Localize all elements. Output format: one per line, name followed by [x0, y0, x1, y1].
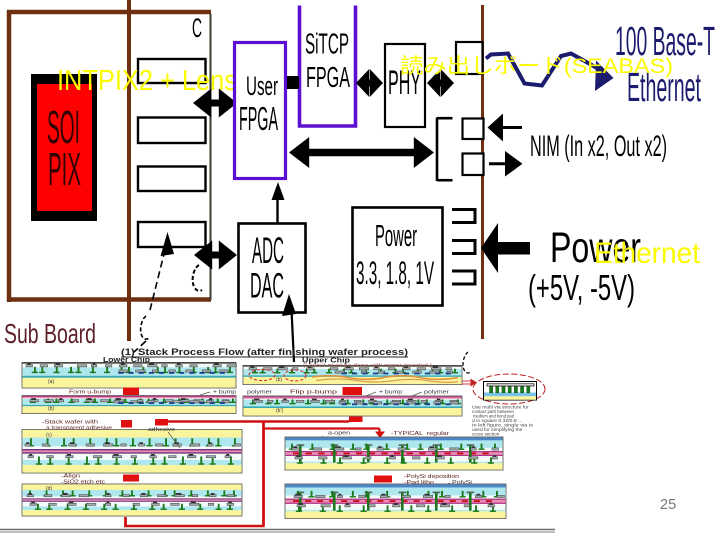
wire arrow from stack figure to DAC: [282, 294, 296, 362]
svg-text:User: User: [246, 71, 278, 101]
figure stacked bar c (left): [22, 430, 242, 474]
connector ethernet jack box: [456, 42, 483, 74]
svg-text:Sub Board: Sub Board: [4, 318, 96, 349]
wire ethernet wave arrow (navy): [486, 54, 614, 92]
block SiTCP FPGA: [300, 6, 356, 127]
wire dashed link and arrow to connector: [134, 232, 174, 352]
figure stacked bar e (right): [285, 437, 503, 470]
wire big power arrow (left): [481, 223, 530, 273]
svg-text:(c): (c): [46, 433, 52, 439]
connector power staple 1: [452, 210, 475, 223]
figure stacked bar f (right): [285, 484, 506, 519]
svg-text:PIX: PIX: [48, 143, 81, 195]
label TYPICAL cross section: [322, 431, 451, 444]
svg-text:(a): (a): [48, 379, 54, 385]
figure lower chip bar a: [22, 363, 237, 389]
wire NIM in arrow (left): [488, 114, 523, 142]
svg-text:(d): (d): [46, 486, 52, 492]
svg-text:cross section: cross section: [472, 432, 500, 437]
svg-text:FPGA: FPGA: [239, 100, 278, 137]
wire double arrow connector-ADC: [194, 241, 237, 270]
label align SiO2 etch annotation: [61, 474, 139, 486]
wire double arrow connector-UserFPGA: [193, 89, 237, 118]
wire NIM out arrow (right): [489, 151, 523, 177]
connector NIM box 2: [463, 154, 484, 176]
svg-text:NIM (In x2, Out x2): NIM (In x2, Out x2): [530, 130, 667, 163]
svg-text:25: 25: [660, 497, 676, 513]
label PolySi deposition annotation: [374, 474, 472, 487]
svg-text:3.3, 1.8, 1V: 3.3, 1.8, 1V: [356, 255, 434, 291]
wire brown divider A: [127, 0, 131, 341]
svg-text:Form u-bump: Form u-bump: [69, 390, 111, 396]
connector pin 2: [138, 118, 206, 144]
svg-text:FPGA: FPGA: [306, 62, 350, 94]
svg-text:読み出しボード(SEABAS): 読み出しボード(SEABAS): [400, 55, 673, 78]
wire double arrow SiTCP-PHY: [356, 69, 383, 97]
svg-text:(b’): (b’): [276, 408, 284, 414]
svg-text:(Layout must be done with mirr: (Layout must be done with mirror inverte…: [303, 363, 432, 369]
label adhesive pointer: [148, 427, 180, 448]
block PHY: [385, 44, 425, 127]
block User FPGA: [235, 43, 286, 179]
label C mark near power connector: [463, 352, 471, 373]
svg-text:SiTCP: SiTCP: [305, 29, 349, 61]
wire bottom gray rule: [0, 530, 555, 533]
label u-bump pointer (left bar2): [200, 390, 272, 396]
svg-text:+ bump: + bump: [379, 390, 402, 396]
connector pin 4: [138, 222, 206, 247]
label multi via note: [472, 405, 533, 437]
svg-text:a-open: a-open: [328, 431, 350, 437]
label Form u-bump + red arrow: [69, 388, 139, 396]
label Flip p-bump + red arrow: [290, 387, 362, 396]
wire red arrow to detail ellipse: [462, 379, 477, 387]
block SOI PIX sensor: [31, 74, 97, 221]
svg-text:Power: Power: [375, 218, 417, 253]
label p-bump pointer (right bar2): [366, 390, 449, 397]
figure lower chip bar c (bumped): [22, 396, 236, 414]
block Power 3.3 1.8 1V: [353, 208, 443, 306]
connector pin 1: [138, 59, 206, 83]
svg-text:(b): (b): [276, 377, 282, 383]
wire double arrow PHY-connector: [427, 69, 454, 97]
svg-text:(1) Stack Process Flow (after: (1) Stack Process Flow (after finishing …: [121, 347, 408, 357]
connector NIM box 1: [463, 119, 484, 140]
connector power staple 2: [452, 241, 475, 254]
connector black square UserFPGA-SiTCP: [287, 76, 299, 89]
wire red L bracket to right column: [124, 421, 385, 526]
connector C column right edge: [210, 14, 212, 300]
figure detail ellipse with via structure: [473, 374, 545, 404]
svg-text:C: C: [192, 13, 202, 43]
svg-text:(+5V, -5V): (+5V, -5V): [528, 267, 635, 308]
svg-text:polymer: polymer: [424, 390, 449, 396]
connector pin 3: [138, 167, 206, 192]
figure upper chip bar b: [243, 366, 462, 385]
svg-text:ADC: ADC: [252, 230, 284, 271]
svg-text:polymer: polymer: [247, 390, 272, 396]
label C (bottom of connector): [193, 265, 202, 291]
connector power staple 3: [452, 271, 475, 284]
svg-text:DAC: DAC: [250, 267, 284, 306]
svg-text:Flip p-bump: Flip p-bump: [290, 390, 337, 396]
svg-text:Ethernet: Ethernet: [594, 237, 701, 270]
svg-text:(b): (b): [48, 406, 54, 412]
block ADC DAC: [239, 224, 306, 313]
wire up arrow ADC-UserFPGA: [272, 182, 285, 223]
frame sub-board outline (brown): [7, 10, 211, 302]
svg-text:adhesive: adhesive: [148, 427, 175, 433]
svg-text:+ bump: + bump: [213, 390, 236, 396]
figure stacked bar d (left): [22, 484, 242, 516]
label stack process flow title: [121, 347, 408, 357]
wire long double arrow UserFPGA-NIM: [289, 137, 434, 168]
wire brown divider B: [481, 5, 484, 339]
wire red flow line row2-row3: [155, 417, 363, 426]
figure upper chip bar d (bumped): [243, 396, 462, 416]
bracket NIM connector: [437, 118, 453, 182]
label stack wafer annotation: [42, 420, 132, 432]
